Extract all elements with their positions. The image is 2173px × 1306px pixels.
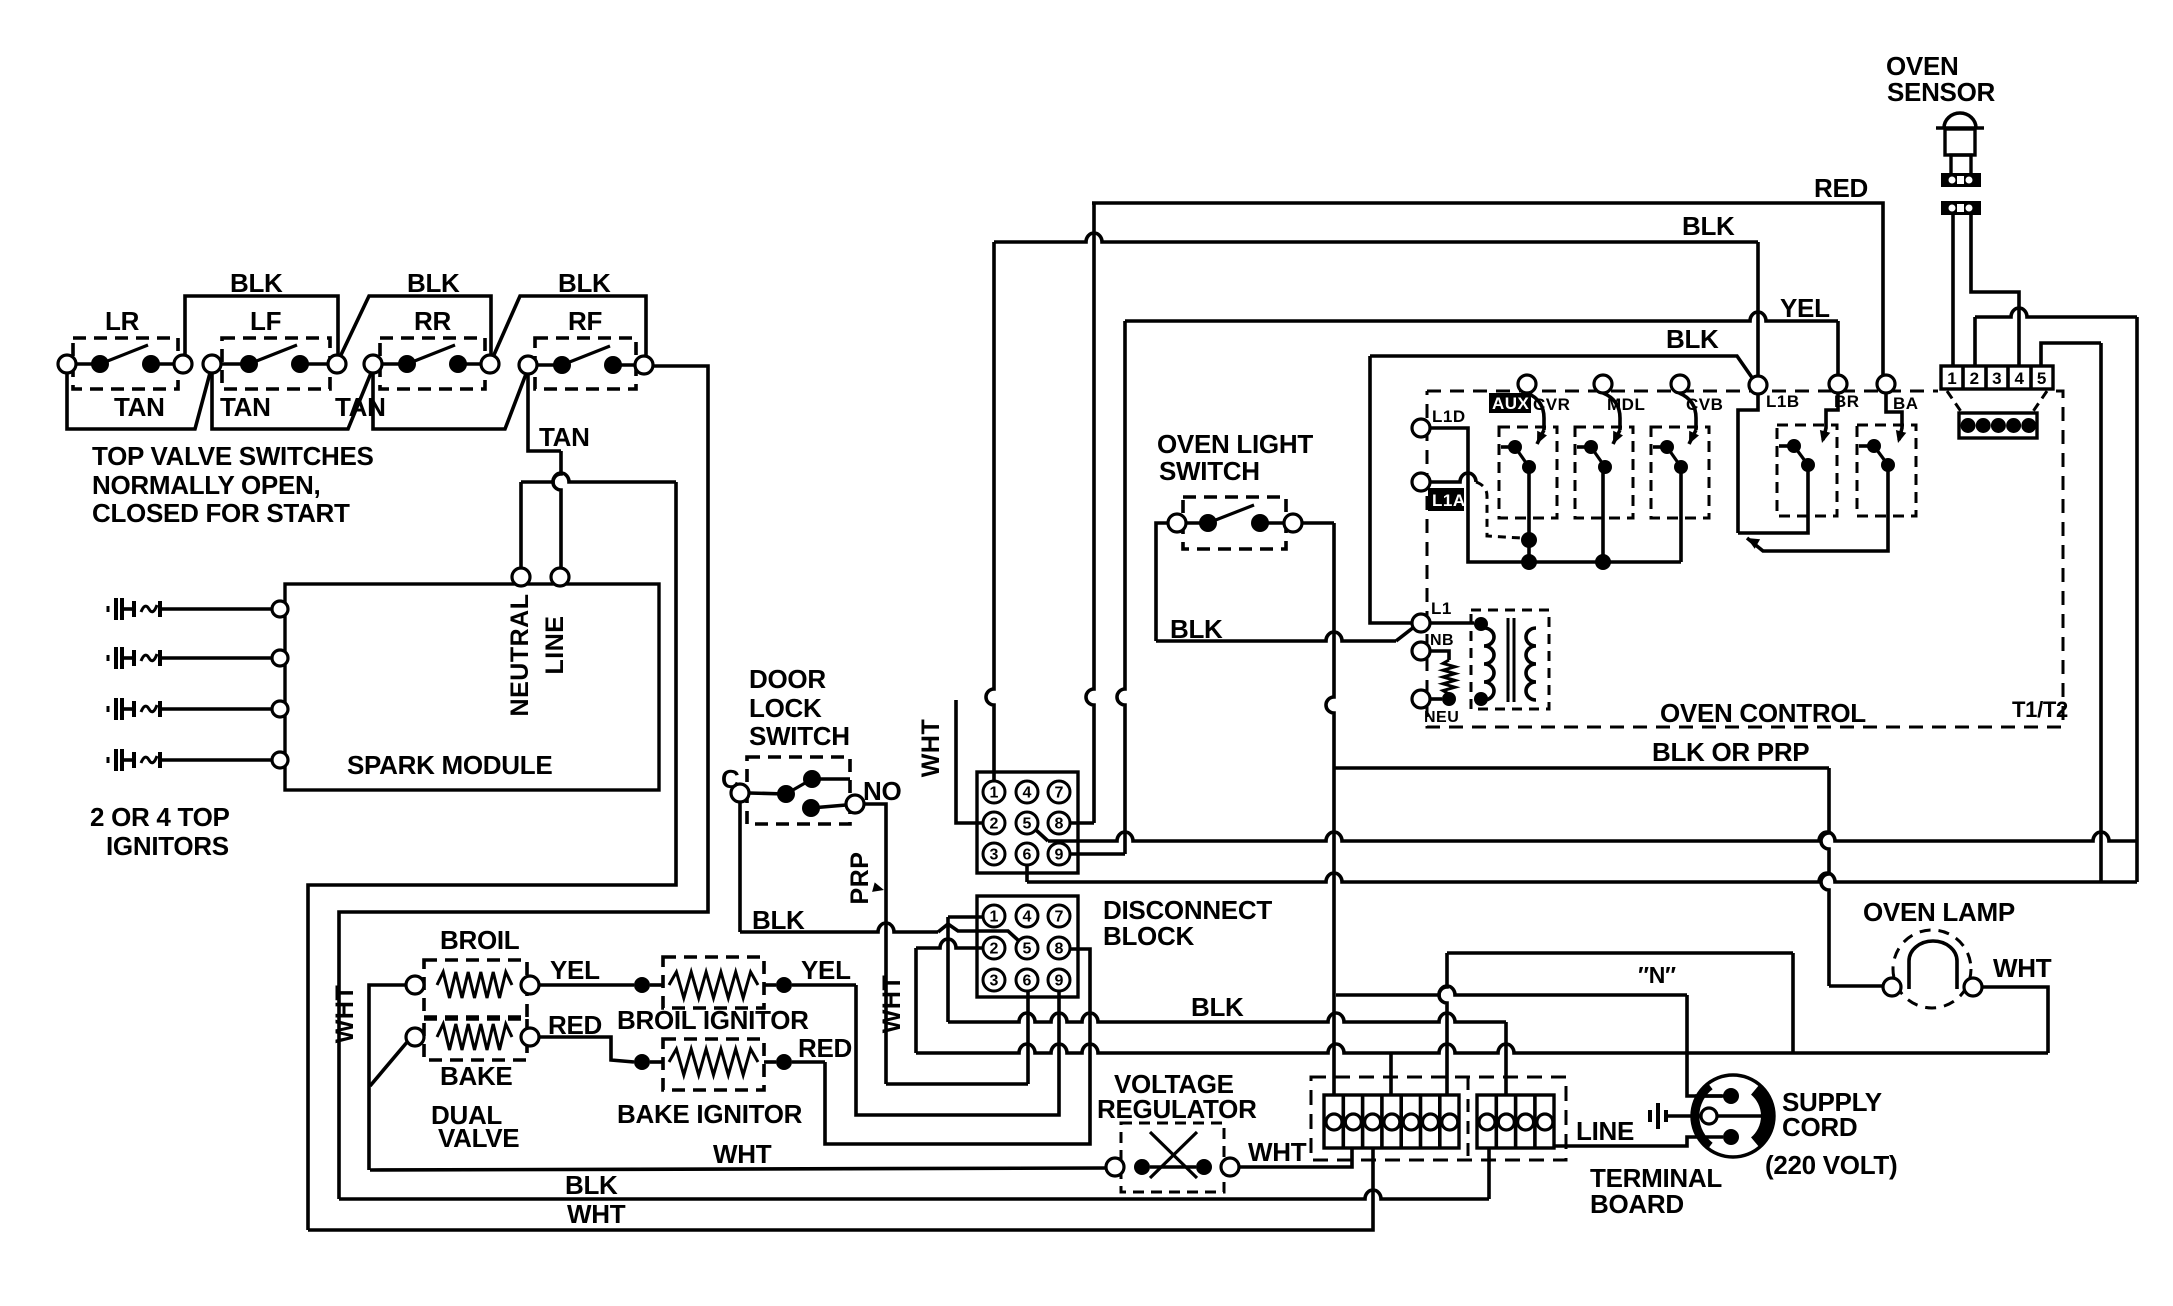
valve switch LR: [58, 306, 192, 389]
wire door lock C down: [738, 802, 742, 932]
wire pin6 B-line: [1027, 865, 2137, 882]
label TAN RF: [539, 422, 590, 452]
wire YEL to pin 9: [1070, 321, 1125, 854]
wire BA coil arrow: [1886, 393, 1906, 443]
wire BLK LF-RR: [340, 296, 491, 357]
label CVB: [1686, 395, 1723, 414]
label LINE: [1576, 1116, 1634, 1146]
relay L1B internals: [1738, 439, 1815, 533]
wire sensor cell5: [2041, 343, 2101, 882]
svg-text:6: 6: [1023, 973, 1032, 990]
label WHT bottom: [567, 1199, 626, 1229]
ignitor symbols: [108, 598, 288, 771]
svg-text:4: 4: [1023, 785, 1032, 802]
wire TAN RF to spark module: [528, 374, 561, 569]
svg-text:YEL: YEL: [1780, 293, 1830, 323]
label BAKE IGNITOR: [617, 1099, 803, 1129]
relay L1B box: [1777, 425, 1837, 516]
svg-text:SPARK MODULE: SPARK MODULE: [347, 750, 552, 780]
svg-text:RF: RF: [568, 306, 602, 336]
svg-text:3: 3: [990, 973, 999, 990]
label WHT valve: [331, 985, 359, 1043]
wire BLK L1 to L1B: [1370, 356, 1753, 623]
supply cord plug: [1692, 1075, 1774, 1157]
wire valve common: [369, 985, 408, 1170]
svg-text:1: 1: [990, 785, 999, 802]
wire BLK bottom: [339, 1148, 1489, 1199]
label BROIL IGNITOR: [617, 1005, 809, 1035]
svg-text:TAN: TAN: [220, 392, 271, 422]
relay arm CVB: [1679, 467, 1683, 562]
svg-text:4: 4: [2014, 369, 2024, 388]
wire BLK OR PRP: [1334, 768, 1883, 986]
svg-text:TAN: TAN: [335, 392, 386, 422]
svg-text:4: 4: [1023, 909, 1032, 926]
svg-text:L1: L1: [1431, 599, 1452, 618]
svg-text:IGNITORS: IGNITORS: [106, 831, 229, 861]
svg-text:(220 VOLT): (220 VOLT): [1765, 1150, 1897, 1180]
wire TAN LF-RR: [212, 373, 371, 429]
svg-text:CORD: CORD: [1782, 1112, 1857, 1142]
wire YEL2: [792, 955, 856, 985]
label OVEN CONTROL: [1660, 698, 1866, 728]
terminal board left block: [1324, 1095, 1459, 1148]
terminal L1B: [1749, 376, 1767, 394]
label BLK bus: [1191, 992, 1244, 1022]
svg-text:L1B: L1B: [1766, 392, 1800, 411]
svg-text:BLK: BLK: [1170, 614, 1223, 644]
wire sensor pin4: [1971, 215, 2019, 366]
svg-text:RR: RR: [414, 306, 451, 336]
svg-text:NO: NO: [863, 776, 901, 806]
svg-text:BROIL IGNITOR: BROIL IGNITOR: [617, 1005, 809, 1035]
label L1B: [1766, 392, 1800, 411]
disconnect block box: [977, 896, 1078, 997]
svg-text:TOP VALVE SWITCHES: TOP VALVE SWITCHES: [92, 441, 374, 471]
svg-text:L1D: L1D: [1432, 407, 1466, 426]
wire BLK x948: [948, 917, 983, 1022]
terminal board right block: [1477, 1095, 1554, 1148]
svg-text:BLK OR PRP: BLK OR PRP: [1652, 737, 1809, 767]
broil valve: [406, 972, 539, 998]
label TERMINAL BOARD: [1590, 1163, 1722, 1219]
wire lamp right: [1982, 987, 2048, 1053]
label N: [1638, 962, 1676, 988]
svg-text:REGULATOR: REGULATOR: [1097, 1094, 1257, 1124]
label OVEN LIGHT SWITCH: [1157, 429, 1313, 486]
wire oven light R down: [1302, 523, 1334, 1095]
label VOLTAGE REGULATOR: [1097, 1069, 1257, 1124]
wire pin9 YEL return: [856, 985, 1059, 1115]
wire YEL top: [1125, 312, 1838, 375]
svg-text:5: 5: [1023, 941, 1032, 958]
label BAKE: [440, 1061, 512, 1091]
svg-text:BLK: BLK: [407, 268, 460, 298]
terminal MDL: [1594, 375, 1612, 393]
wire N plug: [1695, 1094, 1722, 1098]
svg-text:LINE: LINE: [541, 616, 569, 675]
BLK bus: [948, 1013, 1506, 1095]
svg-text:9: 9: [1055, 973, 1064, 990]
label OVEN SENSOR: [1886, 51, 1996, 107]
label WHT lamp: [1993, 953, 2052, 983]
svg-text:5: 5: [1023, 816, 1032, 833]
label BLK 1: [230, 268, 283, 298]
wire PRP NO down: [864, 804, 886, 1084]
wire neutral: [308, 473, 676, 1230]
relays AUX MDL CVB: [1499, 393, 1709, 518]
svg-text:7: 7: [1055, 909, 1064, 926]
svg-text:WHT: WHT: [1248, 1137, 1307, 1167]
bus L1D: [1430, 428, 1681, 562]
svg-text:BAKE IGNITOR: BAKE IGNITOR: [617, 1099, 803, 1129]
label C: [721, 764, 740, 794]
label YEL: [1780, 293, 1830, 323]
door lock switch: [731, 757, 864, 824]
svg-text:YEL: YEL: [801, 955, 851, 985]
oven control dashed box: [1427, 391, 2063, 727]
wire RED top: [1092, 203, 1883, 375]
svg-text:CVR: CVR: [1533, 395, 1570, 414]
svg-text:1: 1: [990, 909, 999, 926]
label BLK oven light: [1170, 614, 1223, 644]
label SUPPLY CORD: [1782, 1087, 1882, 1142]
wire RED to pin 8: [1070, 203, 1094, 823]
wire RED2: [792, 1033, 852, 1063]
label LINE: [541, 616, 569, 675]
oven sensor symbol: [1936, 113, 1984, 215]
label 220 VOLT: [1765, 1150, 1897, 1180]
wire RF.R to BLK down: [339, 366, 708, 1199]
wire VR to board: [1239, 1148, 1352, 1167]
wire BR coil arrow: [1820, 393, 1838, 443]
svg-text:BROIL: BROIL: [440, 925, 520, 955]
svg-text:LF: LF: [250, 306, 281, 336]
svg-text:WHT: WHT: [567, 1199, 626, 1229]
bake ignitor: [650, 1039, 792, 1090]
label BLK door lock: [752, 905, 805, 935]
svg-text:DOOR: DOOR: [749, 664, 826, 694]
relay BR box: [1857, 425, 1916, 516]
svg-text:LINE: LINE: [1576, 1116, 1634, 1146]
label PRP: [846, 852, 884, 905]
wire TAN LR-LF: [67, 373, 210, 429]
svg-text:2: 2: [1970, 369, 1979, 388]
label DOOR LOCK SWITCH: [749, 664, 850, 751]
svg-text:SWITCH: SWITCH: [749, 721, 850, 751]
wire PRP to pin6: [886, 991, 1028, 1084]
spark module pin NEUTRAL: [512, 568, 530, 586]
spark module pin LINE: [551, 568, 569, 586]
label NO: [863, 776, 901, 806]
wire pin8 RED return: [825, 949, 1090, 1144]
svg-text:6: 6: [1023, 847, 1032, 864]
svg-text:3: 3: [1992, 369, 2001, 388]
label T1/T2: [2012, 697, 2068, 722]
svg-text:TAN: TAN: [114, 392, 165, 422]
svg-text:BLK: BLK: [230, 268, 283, 298]
label TAN 2: [220, 392, 271, 422]
svg-text:BLK: BLK: [558, 268, 611, 298]
choke NB: [1430, 651, 1456, 706]
svg-text:VALVE: VALVE: [438, 1123, 519, 1153]
svg-text:BLK: BLK: [565, 1170, 618, 1200]
valve switch RF: [519, 306, 653, 389]
voltage regulator: [1106, 1123, 1239, 1192]
bake valve: [406, 1024, 539, 1050]
svg-text:AUX: AUX: [1492, 394, 1530, 413]
label WHT vr: [1248, 1137, 1307, 1167]
label BR: [1834, 392, 1860, 411]
svg-text:8: 8: [1055, 816, 1064, 833]
label BLK oven control: [1666, 324, 1719, 354]
wire LINE: [1554, 1137, 1723, 1146]
svg-text:2: 2: [990, 941, 999, 958]
wire sensor pin1: [1951, 215, 1955, 366]
svg-text:OVEN CONTROL: OVEN CONTROL: [1660, 698, 1866, 728]
terminal BR: [1829, 375, 1847, 393]
label DUAL VALVE: [431, 1100, 519, 1153]
wire YEL broil: [539, 955, 650, 993]
svg-text:9: 9: [1055, 847, 1064, 864]
svg-text:RED: RED: [1814, 173, 1868, 203]
wire BLK top: [994, 233, 1758, 376]
label BLK bottom: [565, 1170, 618, 1200]
svg-text:RED: RED: [548, 1010, 602, 1040]
svg-text:L1A: L1A: [1432, 491, 1466, 510]
wire L1B feed: [1738, 394, 1758, 533]
wire L1A dashed: [1430, 473, 1521, 538]
label NEUTRAL: [506, 594, 534, 717]
wire oven light L BLK: [1156, 523, 1414, 641]
label AUX inverse: [1489, 393, 1531, 413]
wire WHT valves to VR: [370, 1168, 1106, 1170]
upper connector pins: [983, 781, 1070, 865]
label BLK top: [1682, 211, 1735, 241]
wire WHT bottom: [308, 1148, 1373, 1230]
wire N: [1336, 986, 1724, 1096]
wire pin5 A-line: [1036, 830, 2137, 841]
svg-text:OVEN LIGHT: OVEN LIGHT: [1157, 429, 1313, 459]
wire BLK top to pin1: [986, 242, 994, 781]
terminal NB: [1412, 632, 1454, 660]
svg-text:7: 7: [1055, 785, 1064, 802]
label 2 OR 4 TOP IGNITORS: [90, 802, 230, 861]
label WHT mid: [713, 1139, 772, 1169]
svg-text:YEL: YEL: [550, 955, 600, 985]
terminal CVB: [1671, 375, 1689, 393]
wire cell7 down: [1439, 953, 1447, 1095]
terminal BA: [1877, 375, 1895, 393]
svg-text:RED: RED: [798, 1033, 852, 1063]
sensor connector 1-5: [1941, 366, 2053, 389]
valve switch RR: [364, 306, 499, 389]
svg-text:NEUTRAL: NEUTRAL: [506, 594, 534, 717]
label BLK OR PRP: [1652, 737, 1809, 767]
svg-text:WHT: WHT: [713, 1139, 772, 1169]
label TAN 1: [114, 392, 165, 422]
svg-text:NB: NB: [1430, 632, 1454, 649]
terminal board dashed box: [1311, 1077, 1566, 1160]
terminal L1D: [1412, 407, 1466, 437]
label BLK 3: [558, 268, 611, 298]
label MDL: [1607, 395, 1645, 414]
wire L1 to transformer: [1430, 621, 1474, 625]
label BROIL: [440, 925, 520, 955]
wire pin2 WHT: [916, 939, 983, 1053]
svg-text:″N″: ″N″: [1638, 962, 1676, 988]
svg-text:BOARD: BOARD: [1590, 1189, 1684, 1219]
label BLK 2: [407, 268, 460, 298]
svg-text:SWITCH: SWITCH: [1159, 456, 1260, 486]
spark module box: [285, 584, 659, 790]
relay arm AUX: [1521, 467, 1537, 570]
label TAN 3: [335, 392, 386, 422]
dual valve boxes: [424, 960, 527, 1060]
valve switch LF: [203, 306, 346, 389]
svg-text:NORMALLY OPEN,: NORMALLY OPEN,: [92, 470, 320, 500]
wire y953: [1447, 953, 1793, 1053]
svg-text:BA: BA: [1893, 394, 1919, 413]
svg-text:BLK: BLK: [752, 905, 805, 935]
wire BLK LR-LF: [185, 296, 338, 355]
terminal L1A: [1412, 473, 1430, 491]
svg-text:WHT: WHT: [917, 719, 945, 777]
oven lamp: [1883, 930, 1982, 1008]
terminal L1: [1412, 599, 1452, 632]
svg-text:BLOCK: BLOCK: [1103, 921, 1194, 951]
svg-text:BLK: BLK: [1191, 992, 1244, 1022]
label BA: [1893, 394, 1919, 413]
svg-text:1: 1: [1947, 369, 1956, 388]
svg-text:CLOSED FOR START: CLOSED FOR START: [92, 498, 350, 528]
svg-text:BLK: BLK: [1666, 324, 1719, 354]
disconnect pins: [983, 905, 1070, 991]
oven light switch: [1168, 497, 1302, 549]
relay arm MDL: [1595, 467, 1611, 570]
label OVEN LAMP: [1863, 897, 2015, 927]
terminal NEU: [1412, 690, 1459, 726]
svg-text:2 OR 4 TOP: 2 OR 4 TOP: [90, 802, 230, 832]
wire sensor cell2 BLK: [1975, 308, 2137, 882]
relay BR internals: [1747, 439, 1895, 551]
svg-text:LR: LR: [105, 306, 140, 336]
transformer windings: [1474, 617, 1536, 706]
label RED: [1814, 173, 1868, 203]
label CVR: [1533, 395, 1570, 414]
upper connector block: [977, 772, 1078, 873]
wire RED bake: [539, 1010, 650, 1070]
broil ignitor: [650, 957, 792, 1008]
transformer box: [1471, 610, 1549, 709]
svg-text:SENSOR: SENSOR: [1887, 77, 1996, 107]
svg-text:BAKE: BAKE: [440, 1061, 512, 1091]
WHT 1053 line: [916, 1044, 2048, 1095]
svg-text:T1/T2: T1/T2: [2012, 697, 2068, 722]
label DISCONNECT BLOCK: [1103, 895, 1272, 951]
wire BLK RR-RF: [493, 296, 646, 357]
terminal AUX/CVR: [1518, 375, 1536, 393]
label WHT prp: [878, 975, 906, 1033]
wire BLK door lock to disconnect: [740, 923, 1019, 941]
label WHT vertical: [917, 719, 945, 777]
svg-text:NEU: NEU: [1424, 709, 1459, 726]
svg-text:WHT: WHT: [878, 975, 906, 1033]
svg-text:OVEN LAMP: OVEN LAMP: [1863, 897, 2015, 927]
svg-text:5: 5: [2037, 369, 2046, 388]
svg-text:BLK: BLK: [1682, 211, 1735, 241]
svg-text:2: 2: [990, 816, 999, 833]
caption top valve switches: [92, 441, 374, 528]
wire WHT to pin 2 upper: [956, 700, 983, 823]
svg-text:TAN: TAN: [539, 422, 590, 452]
svg-text:3: 3: [990, 847, 999, 864]
sensor trapezoid: [1947, 391, 2047, 438]
svg-text:C: C: [721, 764, 740, 794]
svg-text:WHT: WHT: [331, 985, 359, 1043]
ground symbol: [1650, 1103, 1701, 1129]
svg-text:8: 8: [1055, 941, 1064, 958]
svg-text:PRP: PRP: [846, 852, 874, 905]
svg-text:WHT: WHT: [1993, 953, 2052, 983]
label L1A inverse: [1428, 488, 1466, 511]
svg-text:LOCK: LOCK: [749, 693, 822, 723]
wire TAN RR-RF: [373, 373, 526, 429]
